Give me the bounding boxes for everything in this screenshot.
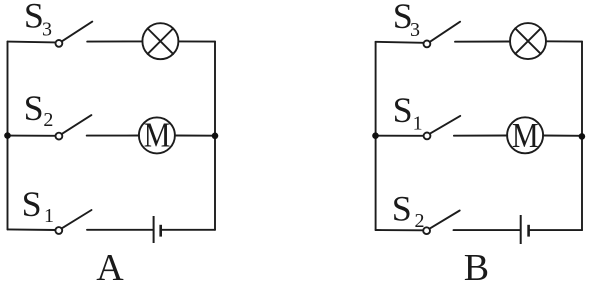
wire S3 fixed contact to lamp [87, 40, 142, 42]
switch S3 circle [56, 40, 63, 47]
switch S1 blade circuit B [430, 116, 460, 134]
svg-text:3: 3 [410, 19, 420, 41]
wire A bottom-left to switch S1 [8, 228, 56, 231]
wire B top-left to switch S3 [376, 42, 424, 43]
switch S3 blade [62, 22, 93, 42]
wire A mid-left to switch S2 [8, 135, 56, 137]
switch S3 blade circuit B [430, 22, 460, 42]
svg-text:M: M [144, 116, 171, 155]
lamp L (circle with X) circuit A [142, 23, 178, 59]
svg-text:S: S [24, 0, 44, 36]
battery short plate circuit B [527, 225, 530, 237]
switch S2 circle [56, 133, 63, 140]
wire motor to B right vertical [543, 135, 582, 137]
battery short plate circuit A [159, 225, 162, 237]
svg-text:S: S [393, 90, 413, 130]
wire S1 fixed contact to battery [87, 229, 153, 231]
wire S3 fixed contact to lamp circuit B [455, 41, 510, 43]
svg-text:S: S [392, 189, 412, 229]
wire S2 fixed contact to battery circuit B [454, 229, 520, 231]
motor M circle circuit B [507, 117, 543, 153]
svg-text:3: 3 [42, 19, 52, 41]
switch S2 blade [62, 115, 92, 134]
wire lamp to A right vertical [178, 40, 215, 42]
svg-text:2: 2 [415, 210, 425, 232]
wire A right vertical [214, 42, 216, 230]
junction node left circuit A [4, 132, 11, 139]
switch S2 blade circuit B [430, 211, 460, 229]
battery long plate circuit A [153, 216, 155, 243]
wire lamp to B right vertical [546, 40, 582, 42]
svg-text:2: 2 [43, 109, 53, 131]
junction node right circuit B [579, 133, 586, 140]
wire B mid-left to switch S1 [376, 135, 424, 137]
junction node right circuit A [212, 133, 219, 140]
switch S1 circle circuit B [424, 133, 431, 140]
switch S1 circle [55, 227, 62, 234]
switch S2 circle circuit B [423, 227, 430, 234]
wire B bottom-left to switch S2 [376, 229, 424, 231]
switch S3 circle circuit B [424, 41, 431, 48]
wire motor to A right vertical [175, 135, 215, 137]
svg-text:M: M [512, 117, 539, 156]
svg-text:S: S [24, 88, 44, 128]
lamp L (circle with X) circuit B [510, 23, 546, 59]
wire battery to A right vertical [162, 229, 215, 231]
wire B right vertical [581, 42, 583, 230]
svg-text:1: 1 [44, 205, 54, 227]
wire S1 fixed contact to motor circuit B [454, 135, 507, 137]
svg-text:B: B [464, 247, 489, 286]
wire A left vertical [7, 42, 9, 230]
battery long plate circuit B [520, 215, 522, 244]
svg-text:1: 1 [413, 112, 423, 134]
svg-text:S: S [22, 184, 42, 224]
motor M circle circuit A [139, 117, 175, 153]
wire S2 fixed contact to motor [87, 135, 139, 137]
wire A top-left to switch S3 [8, 41, 56, 44]
junction node left circuit B [372, 132, 379, 139]
wire battery to B right vertical [530, 229, 582, 231]
svg-text:A: A [96, 247, 124, 286]
wire B left vertical [375, 42, 377, 230]
switch S1 blade [62, 210, 92, 228]
